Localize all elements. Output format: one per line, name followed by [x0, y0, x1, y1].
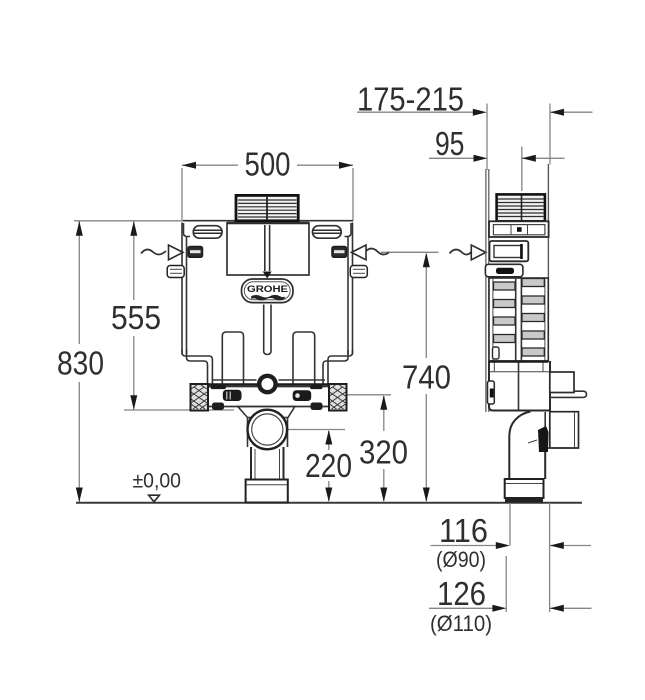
wall anchor arrow right	[352, 245, 427, 260]
svg-text:(Ø90): (Ø90)	[436, 547, 486, 572]
svg-text:(Ø110): (Ø110)	[430, 611, 492, 636]
right leg	[293, 332, 315, 384]
outlet pipe	[251, 447, 284, 480]
svg-text:740: 740	[402, 359, 451, 396]
left slats	[494, 282, 516, 290]
right end block	[329, 384, 347, 411]
outlet circle	[247, 410, 287, 450]
front view: tank outline	[182, 221, 353, 384]
dimension 175-215	[357, 81, 593, 171]
svg-text:320: 320	[359, 434, 408, 471]
svg-text:220: 220	[305, 447, 352, 484]
dimension 740	[381, 252, 451, 502]
left wall double	[181, 223, 183, 355]
side clip	[485, 264, 523, 277]
left mounting ear	[193, 226, 222, 239]
access window	[227, 223, 309, 279]
left end block	[191, 384, 209, 411]
side foot	[505, 479, 544, 503]
svg-text:126: 126	[437, 575, 486, 612]
left notch	[488, 381, 495, 404]
svg-text:175-215: 175-215	[357, 81, 464, 118]
left top corner piece	[184, 223, 191, 237]
side body front edge	[547, 164, 549, 278]
right wall fixing box	[332, 247, 347, 258]
bottom bracket rail	[191, 384, 347, 411]
center hub circle	[257, 374, 278, 395]
flush pipe lower	[264, 305, 271, 355]
side flush connection	[550, 372, 587, 397]
dimension 116 (Ø90)	[431, 512, 592, 572]
side down pipe	[509, 452, 545, 479]
side outlet socket	[547, 412, 579, 448]
side ribbed body	[489, 278, 548, 361]
side threaded cap	[497, 194, 545, 221]
dimension 500	[182, 146, 353, 222]
svg-text:555: 555	[111, 299, 161, 336]
floor line	[76, 502, 582, 504]
left side tab	[167, 266, 184, 278]
right side tab	[350, 266, 367, 278]
side inlet elbow	[490, 241, 529, 261]
side elbow	[509, 412, 548, 453]
GROHE logo oval	[242, 279, 294, 303]
dimension 830	[57, 221, 183, 502]
outlet foot	[246, 480, 288, 503]
side collar	[489, 221, 549, 237]
svg-text:830: 830	[57, 345, 104, 382]
wall anchor arrow left	[141, 245, 183, 260]
svg-text:500: 500	[245, 146, 291, 183]
dimension 320	[346, 395, 409, 502]
right top corner piece	[345, 223, 352, 237]
left wall fixing box	[188, 247, 203, 258]
right bottom staircase	[328, 350, 353, 384]
svg-text:95: 95	[435, 125, 465, 162]
dimension 95	[429, 125, 565, 191]
svg-text:116: 116	[439, 512, 488, 549]
tank top edge	[183, 220, 236, 222]
right mounting ear	[313, 226, 342, 239]
frame legs	[212, 332, 325, 384]
outlet housing trapezoid	[238, 407, 295, 448]
svg-text:GROHE: GROHE	[247, 284, 288, 295]
wall line	[486, 169, 489, 412]
below-floor extension lines	[506, 503, 549, 612]
left slot pair	[223, 390, 242, 401]
wall anchor arrow side view	[450, 245, 486, 260]
dimension 126 (Ø110)	[429, 575, 592, 636]
under tabs	[212, 403, 224, 411]
right slats	[522, 279, 544, 287]
side bottom block	[488, 361, 551, 411]
rail dashes	[211, 386, 227, 390]
right slot pair	[293, 390, 312, 401]
datum ±0,00 label	[133, 469, 182, 502]
rear rail line	[212, 379, 257, 381]
inspection shaft (hatched block)	[236, 195, 298, 220]
dimension 555	[111, 221, 234, 410]
right wall double	[352, 223, 354, 355]
left leg	[222, 332, 243, 384]
dimension 220	[270, 430, 352, 503]
svg-text:±0,00: ±0,00	[133, 469, 182, 492]
left bottom staircase	[182, 350, 212, 384]
